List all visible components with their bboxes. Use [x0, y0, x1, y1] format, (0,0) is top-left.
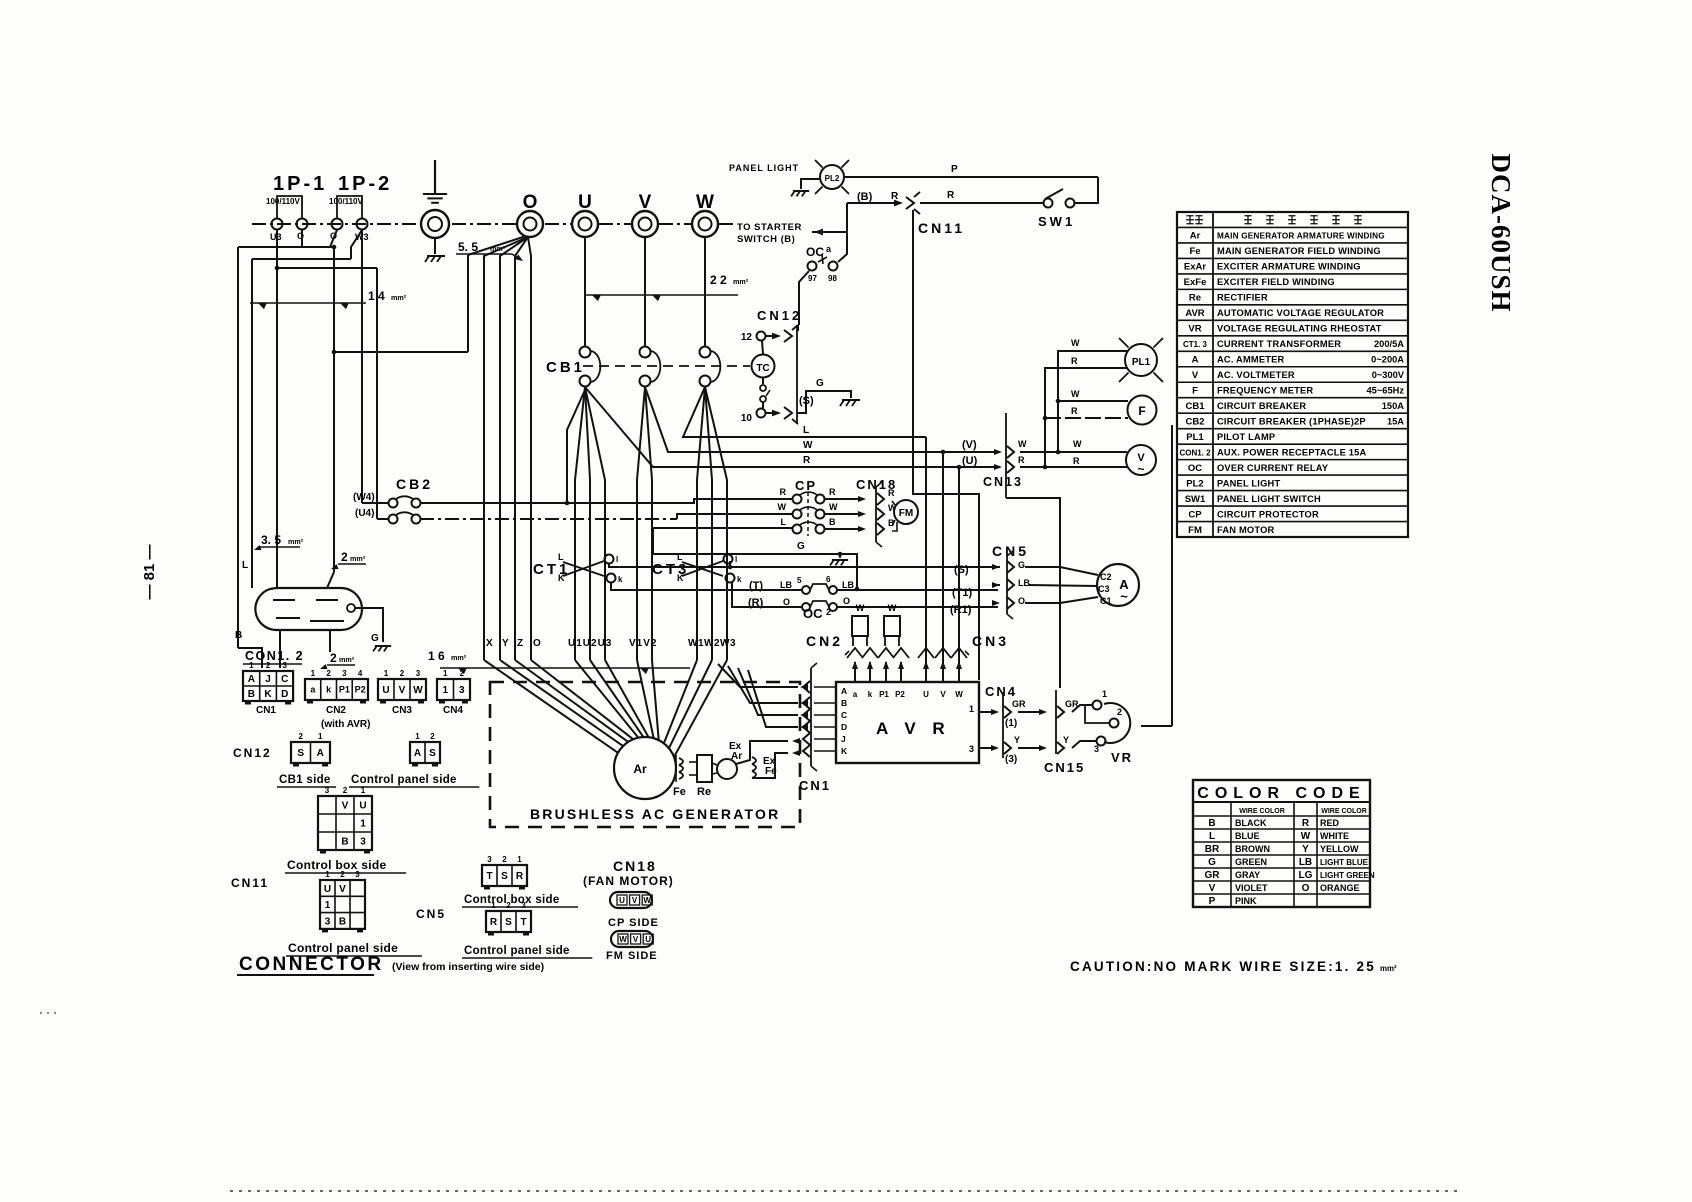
svg-text:2: 2 — [502, 855, 507, 864]
svg-text:1: 1 — [249, 661, 254, 670]
svg-text:W: W — [1071, 389, 1080, 399]
wire CT1 l to S row — [609, 563, 998, 567]
wire vertical right — [1171, 425, 1173, 726]
wire U4 down to CB2 — [277, 267, 377, 269]
wire CT3 k to R row — [732, 582, 802, 607]
wire CB2 row2 to CP — [420, 518, 677, 520]
title DCA-60USH — [1486, 153, 1516, 312]
svg-text:W: W — [1018, 439, 1027, 449]
svg-text:CB2: CB2 — [396, 476, 433, 492]
svg-text:1: 1 — [360, 819, 366, 830]
svg-text:C3: C3 — [1098, 584, 1110, 594]
svg-text:F: F — [1192, 385, 1198, 396]
svg-text:2: 2 — [400, 669, 405, 678]
svg-text:mm²: mm² — [339, 655, 355, 664]
wire CT1 k to T row — [611, 582, 802, 590]
svg-text:F: F — [1138, 404, 1145, 418]
svg-text:100/110V: 100/110V — [266, 197, 300, 206]
svg-text:CN4: CN4 — [443, 705, 463, 716]
svg-text:CN2: CN2 — [806, 633, 843, 649]
svg-text:R: R — [947, 190, 955, 201]
svg-text:PANEL LIGHT SWITCH: PANEL LIGHT SWITCH — [1217, 494, 1321, 504]
svg-text:WIRE COLOR: WIRE COLOR — [1239, 808, 1285, 815]
svg-text:~: ~ — [1120, 589, 1128, 604]
svg-text:U: U — [324, 884, 331, 895]
svg-text:CIRCUIT BREAKER: CIRCUIT BREAKER — [1217, 401, 1306, 411]
svg-text:PANEL LIGHT: PANEL LIGHT — [729, 163, 799, 173]
svg-text:CN15: CN15 — [1044, 760, 1085, 775]
svg-text:P1: P1 — [339, 685, 350, 695]
svg-text:3: 3 — [969, 744, 974, 754]
svg-text:~: ~ — [1137, 462, 1144, 476]
wire fan from O terminal — [484, 237, 528, 660]
bottom dotted rule — [230, 1190, 1460, 1192]
svg-text:CN5: CN5 — [416, 907, 446, 921]
svg-text:B: B — [841, 698, 847, 708]
svg-text:AC. VOLTMETER: AC. VOLTMETER — [1217, 370, 1295, 380]
svg-text:mm²: mm² — [1380, 964, 1397, 973]
svg-text:1: 1 — [311, 669, 316, 678]
svg-text:1P-2: 1P-2 — [338, 173, 392, 195]
svg-text:(FAN MOTOR): (FAN MOTOR) — [583, 874, 674, 888]
svg-text:(S): (S) — [799, 395, 814, 407]
svg-text:1: 1 — [1102, 689, 1107, 699]
svg-text:V: V — [1192, 370, 1199, 381]
svg-text:CIRCUIT BREAKER (1PHASE)2P: CIRCUIT BREAKER (1PHASE)2P — [1217, 416, 1366, 426]
svg-text:3: 3 — [487, 855, 492, 864]
svg-text:k: k — [737, 575, 742, 584]
wire L — [683, 387, 926, 437]
svg-text:CN3: CN3 — [392, 705, 412, 716]
wire fan from CB1 U pole — [575, 387, 585, 660]
svg-text:V: V — [342, 801, 349, 812]
svg-text:U: U — [359, 801, 366, 812]
svg-text:(U4): (U4) — [355, 508, 374, 519]
svg-text:V: V — [633, 935, 639, 944]
ground below E terminal — [427, 255, 445, 257]
svg-text:OVER CURRENT RELAY: OVER CURRENT RELAY — [1217, 463, 1329, 473]
svg-text:A: A — [414, 748, 421, 759]
svg-text:K: K — [558, 573, 565, 583]
svg-text:K: K — [841, 746, 848, 756]
svg-text:FM: FM — [1188, 525, 1202, 536]
svg-text:U3: U3 — [270, 232, 282, 242]
svg-text:LIGHT GREEN: LIGHT GREEN — [1320, 871, 1375, 880]
svg-text:B: B — [341, 837, 348, 848]
svg-text:1: 1 — [517, 855, 522, 864]
svg-text:ExAr: ExAr — [1184, 262, 1206, 273]
svg-text:R: R — [1073, 456, 1080, 466]
wire CN12 to S/G ground — [797, 391, 851, 413]
svg-text:W: W — [413, 685, 423, 696]
wire U3 branch — [276, 230, 278, 588]
wire CN11 down to AVR area — [913, 210, 979, 680]
rectifier Re — [697, 755, 712, 782]
svg-text:C: C — [841, 710, 847, 720]
svg-text:SW1: SW1 — [1185, 494, 1206, 505]
svg-text:LB: LB — [1299, 857, 1312, 868]
ground symbol top — [434, 160, 436, 194]
svg-text:O: O — [533, 638, 541, 649]
svg-text:R: R — [829, 487, 836, 497]
svg-text:200/5A: 200/5A — [1374, 339, 1404, 349]
wires bundle into CN1 — [718, 664, 798, 687]
svg-text:PL1: PL1 — [1186, 432, 1204, 443]
svg-text:MAIN GENERATOR FIELD WINDING: MAIN GENERATOR FIELD WINDING — [1217, 246, 1381, 256]
svg-text:2: 2 — [341, 550, 348, 564]
svg-text:CP: CP — [1188, 509, 1202, 520]
svg-text:V: V — [1209, 883, 1216, 894]
wire CT3 l stub — [729, 561, 731, 567]
svg-text:2: 2 — [326, 669, 331, 678]
svg-text:CT1. 3: CT1. 3 — [1183, 340, 1208, 349]
svg-text:LIGHT BLUE: LIGHT BLUE — [1320, 858, 1369, 867]
svg-text:V: V — [940, 690, 946, 699]
pilot lamp PL1 — [1125, 344, 1157, 376]
svg-text:R: R — [1071, 406, 1078, 416]
svg-text:PL2: PL2 — [1186, 478, 1203, 489]
svg-text:CON1. 2: CON1. 2 — [1179, 448, 1211, 457]
wire left vertical B — [237, 247, 239, 648]
svg-text:PANEL LIGHT: PANEL LIGHT — [1217, 478, 1280, 488]
wire to CP L row — [653, 527, 792, 529]
svg-text:BLUE: BLUE — [1235, 831, 1260, 841]
svg-text:BLACK: BLACK — [1235, 818, 1267, 828]
svg-text:V: V — [399, 685, 406, 696]
svg-text:CURRENT TRANSFORMER: CURRENT TRANSFORMER — [1217, 339, 1341, 349]
svg-text:2 2: 2 2 — [710, 273, 727, 287]
thermal contact TC — [752, 355, 775, 378]
svg-text:1: 1 — [415, 732, 420, 741]
svg-text:3: 3 — [360, 837, 366, 848]
svg-text:3: 3 — [521, 901, 526, 910]
svg-text:ORANGE: ORANGE — [1320, 883, 1360, 893]
svg-text:EXCITER FIELD WINDING: EXCITER FIELD WINDING — [1217, 277, 1335, 287]
svg-text:W: W — [619, 935, 627, 944]
svg-text:A: A — [1192, 355, 1199, 366]
svg-text:MAIN GENERATOR ARMATURE WINDIN: MAIN GENERATOR ARMATURE WINDING — [1217, 232, 1385, 241]
svg-text:X: X — [486, 638, 493, 649]
svg-text:DCA-60USH: DCA-60USH — [1486, 153, 1516, 312]
wire G from oval to ground — [355, 608, 383, 642]
svg-text:V1V2: V1V2 — [629, 638, 657, 649]
svg-text:P2: P2 — [355, 685, 366, 695]
wire T row to CN5 — [837, 589, 998, 591]
svg-text:T: T — [486, 871, 492, 882]
svg-text:W: W — [1073, 439, 1082, 449]
frequency meter F — [1128, 396, 1157, 425]
svg-text:CN1: CN1 — [256, 705, 276, 716]
svg-text:FM: FM — [899, 508, 913, 519]
svg-text:GREEN: GREEN — [1235, 857, 1267, 867]
switch SW1 — [1044, 199, 1053, 208]
wire G with ground — [653, 529, 857, 589]
table header glyphs — [1187, 215, 1194, 217]
svg-text:12: 12 — [741, 332, 753, 343]
svg-text:W: W — [888, 603, 897, 613]
svg-text:5: 5 — [797, 576, 802, 585]
svg-text:1: 1 — [325, 870, 330, 879]
wire R to voltmeter — [1020, 466, 1127, 468]
svg-text:W: W — [803, 440, 813, 451]
svg-text:(B): (B) — [857, 191, 873, 203]
svg-text:O: O — [1302, 883, 1310, 894]
svg-text:Control panel side: Control panel side — [464, 945, 570, 957]
svg-text:2: 2 — [460, 669, 465, 678]
svg-text:COLOR CODE: COLOR CODE — [1197, 785, 1365, 802]
svg-text:B: B — [829, 517, 836, 527]
svg-text:FAN MOTOR: FAN MOTOR — [1217, 525, 1274, 535]
svg-text:15A: 15A — [1387, 416, 1404, 426]
svg-text:CN4: CN4 — [985, 684, 1017, 699]
svg-text:W: W — [1301, 831, 1311, 842]
wire R to CN13 — [585, 387, 1000, 467]
svg-text:VR: VR — [1188, 324, 1201, 335]
svg-text:CN2: CN2 — [326, 705, 346, 716]
generator box BRUSHLESS AC GENERATOR — [490, 682, 800, 827]
svg-text:CN1: CN1 — [799, 778, 831, 793]
svg-text:CP SIDE: CP SIDE — [608, 917, 659, 929]
wire S T1 R1 rows into CN5 — [998, 566, 1000, 568]
svg-text:T: T — [520, 917, 526, 928]
svg-text:PILOT LAMP: PILOT LAMP — [1217, 432, 1275, 442]
svg-text:BROWN: BROWN — [1235, 844, 1270, 854]
wire CN5 to ammeter — [1025, 567, 1098, 575]
svg-text:W: W — [856, 603, 865, 613]
svg-text:Re: Re — [1189, 293, 1201, 304]
svg-text:6: 6 — [826, 575, 831, 584]
svg-text:BR: BR — [1205, 844, 1220, 855]
svg-text:2: 2 — [340, 870, 345, 879]
wire ExAr to CN1 J — [736, 741, 788, 764]
svg-text:LB: LB — [1018, 578, 1030, 588]
svg-text:P2: P2 — [895, 690, 905, 699]
svg-text:Fe: Fe — [673, 786, 686, 798]
svg-text:J: J — [265, 674, 271, 685]
fan motor FM — [894, 500, 918, 524]
svg-text:CAUTION:NO MARK WIRE SIZE:1. 2: CAUTION:NO MARK WIRE SIZE:1. 25 — [1070, 959, 1376, 974]
svg-text:PINK: PINK — [1235, 896, 1257, 906]
connector CN3 pin grid — [378, 679, 426, 700]
svg-text:SW1: SW1 — [1038, 214, 1075, 229]
wire ExFe to CN1 K — [752, 753, 788, 778]
svg-text:SWITCH (B): SWITCH (B) — [737, 234, 795, 245]
wire CN13 down to CN15 — [1006, 498, 1060, 688]
svg-text:WHITE: WHITE — [1320, 831, 1349, 841]
svg-text:S: S — [501, 871, 508, 882]
svg-text:100/110V: 100/110V — [329, 197, 363, 206]
svg-text:L: L — [1209, 831, 1215, 842]
svg-text:2: 2 — [1117, 707, 1122, 717]
svg-text:Control panel side: Control panel side — [288, 941, 398, 955]
svg-text:Ar: Ar — [1190, 231, 1201, 242]
svg-text:O: O — [783, 597, 790, 607]
svg-text:R: R — [490, 917, 498, 928]
svg-text:U: U — [382, 685, 389, 696]
connector CN1 pin grid — [243, 671, 293, 701]
svg-text:C1: C1 — [1100, 596, 1112, 606]
svg-text:A: A — [317, 748, 324, 759]
svg-text:RED: RED — [1320, 818, 1340, 828]
svg-text:CN13: CN13 — [983, 475, 1023, 489]
svg-text:CN11: CN11 — [918, 220, 965, 236]
svg-text:K: K — [677, 573, 684, 583]
svg-text:W: W — [1071, 338, 1080, 348]
svg-text:CN12: CN12 — [757, 308, 802, 323]
svg-text:Y: Y — [1014, 735, 1020, 745]
svg-text:A: A — [841, 686, 847, 696]
exciter armature ExAr — [717, 759, 737, 779]
svg-text:k: k — [618, 575, 623, 584]
svg-text:1: 1 — [969, 704, 974, 714]
svg-text:BRUSHLESS AC GENERATOR: BRUSHLESS AC GENERATOR — [530, 806, 780, 822]
svg-text:R: R — [516, 871, 524, 882]
wire W to voltmeter — [1020, 451, 1127, 453]
svg-text:U: U — [619, 896, 625, 905]
svg-text:Control box side: Control box side — [464, 894, 560, 906]
svg-text:P: P — [1209, 896, 1216, 907]
svg-text:TC: TC — [756, 363, 769, 374]
wire P to switch — [844, 176, 1098, 178]
svg-text:98: 98 — [828, 274, 837, 283]
svg-text:LB: LB — [842, 580, 854, 590]
svg-text:Y: Y — [1302, 844, 1309, 855]
svg-text:2: 2 — [266, 661, 271, 670]
svg-text:L: L — [781, 517, 787, 527]
svg-text:U: U — [645, 935, 651, 944]
svg-text:R: R — [1071, 356, 1078, 366]
wire W riser to PL1/F — [1056, 450, 1061, 455]
svg-text:A V R: A V R — [876, 719, 951, 738]
svg-text:— 81 —: — 81 — — [141, 544, 158, 599]
svg-text:ExFe: ExFe — [1184, 277, 1207, 288]
svg-text:W: W — [955, 690, 963, 699]
svg-text:Y: Y — [502, 638, 509, 649]
svg-text:10: 10 — [741, 413, 753, 424]
svg-text:G: G — [1018, 560, 1025, 570]
svg-text:(with AVR): (with AVR) — [321, 719, 370, 730]
svg-text:1: 1 — [491, 901, 496, 910]
svg-text:Control panel side: Control panel side — [351, 774, 457, 786]
svg-text:CONNECTOR: CONNECTOR — [239, 954, 384, 975]
svg-text:mm²: mm² — [391, 293, 407, 302]
CB1 linkage dashed — [583, 365, 750, 367]
svg-text:A: A — [248, 674, 255, 685]
field winding Fe coil — [679, 758, 683, 765]
svg-text:3: 3 — [325, 786, 330, 795]
svg-text:LG: LG — [1299, 870, 1313, 881]
svg-text:L: L — [558, 552, 564, 562]
svg-text:0~300V: 0~300V — [1372, 370, 1405, 380]
svg-text:PL2: PL2 — [825, 174, 840, 183]
svg-text:L: L — [242, 560, 248, 571]
wire R riser to PL1/F — [1043, 465, 1048, 470]
exciter field ExFe coil — [752, 757, 756, 764]
svg-text:CB1 side: CB1 side — [279, 774, 331, 786]
svg-text:mm²: mm² — [350, 554, 366, 563]
wire W3 to left vertical — [351, 230, 362, 259]
svg-text:Fe: Fe — [1189, 246, 1200, 257]
svg-text:TO STARTER: TO STARTER — [737, 222, 802, 233]
svg-text:2: 2 — [299, 732, 304, 741]
wire OCa to CN12 — [799, 271, 809, 325]
wire CN15 to VR — [1072, 705, 1092, 712]
wire O to receptacle 2sq — [332, 350, 337, 355]
svg-text:97: 97 — [808, 274, 817, 283]
ammeter A — [1097, 564, 1139, 606]
wire B to OCa — [838, 203, 847, 262]
wire fan from CB1 V pole — [637, 387, 645, 660]
svg-text:R: R — [803, 455, 811, 466]
connector CN15 — [1018, 711, 1044, 713]
svg-text:3: 3 — [355, 870, 360, 879]
svg-text:W: W — [643, 896, 651, 905]
svg-text:O: O — [1018, 596, 1025, 606]
svg-text:VIOLET: VIOLET — [1235, 883, 1268, 893]
VR internal wire — [1085, 705, 1109, 723]
svg-text:WIRE COLOR: WIRE COLOR — [1321, 808, 1367, 815]
svg-text:3: 3 — [325, 916, 331, 927]
svg-text:S: S — [505, 917, 512, 928]
rheostat VR — [1104, 703, 1130, 743]
svg-text:G: G — [797, 541, 805, 552]
svg-text:CN12: CN12 — [233, 746, 272, 760]
svg-text:L: L — [803, 425, 809, 436]
svg-text:R: R — [780, 487, 787, 497]
svg-text:(W4): (W4) — [353, 492, 375, 503]
aux receptacle CON1,2 body — [255, 588, 362, 630]
wire W to CN13 — [645, 387, 1000, 452]
svg-text:(U): (U) — [962, 455, 978, 467]
svg-text:GRAY: GRAY — [1235, 870, 1260, 880]
svg-text:45~65Hz: 45~65Hz — [1367, 385, 1405, 395]
svg-text:G: G — [816, 378, 824, 389]
connector control box side 3x3 grid — [318, 796, 372, 850]
svg-text:R: R — [1018, 455, 1025, 465]
svg-text:(T1): (T1) — [952, 587, 973, 599]
armature winding Ar — [614, 737, 676, 799]
ground terminal E — [421, 210, 449, 238]
svg-text:Ar: Ar — [633, 762, 647, 776]
svg-text:S: S — [297, 748, 304, 759]
wire U pole stub to CP row — [567, 390, 585, 503]
svg-text:mm²: mm² — [733, 277, 749, 286]
svg-text:1P-1: 1P-1 — [273, 173, 327, 195]
svg-text:R: R — [1302, 818, 1310, 829]
svg-text:(V): (V) — [962, 439, 977, 451]
svg-text:(View from inserting wire side: (View from inserting wire side) — [392, 961, 544, 973]
svg-text:K: K — [264, 689, 272, 700]
svg-text:CB2: CB2 — [1185, 416, 1204, 427]
svg-text:RECTIFIER: RECTIFIER — [1217, 293, 1268, 303]
svg-text:CP: CP — [795, 478, 817, 493]
svg-text:S: S — [429, 748, 436, 759]
svg-text:C: C — [281, 674, 288, 685]
svg-text:D: D — [841, 722, 847, 732]
svg-text:GR: GR — [1205, 870, 1221, 881]
svg-text:3: 3 — [283, 661, 288, 670]
svg-text:R: R — [888, 488, 895, 498]
svg-text:PL1: PL1 — [1132, 357, 1151, 368]
svg-text:VR: VR — [1111, 750, 1133, 765]
page number -81- — [141, 544, 158, 599]
svg-text:2: 2 — [343, 786, 348, 795]
svg-text:D: D — [281, 689, 288, 700]
svg-text:3: 3 — [1094, 744, 1099, 754]
svg-text:LB: LB — [780, 580, 792, 590]
svg-text:Z: Z — [517, 638, 523, 649]
svg-text:B: B — [248, 689, 255, 700]
